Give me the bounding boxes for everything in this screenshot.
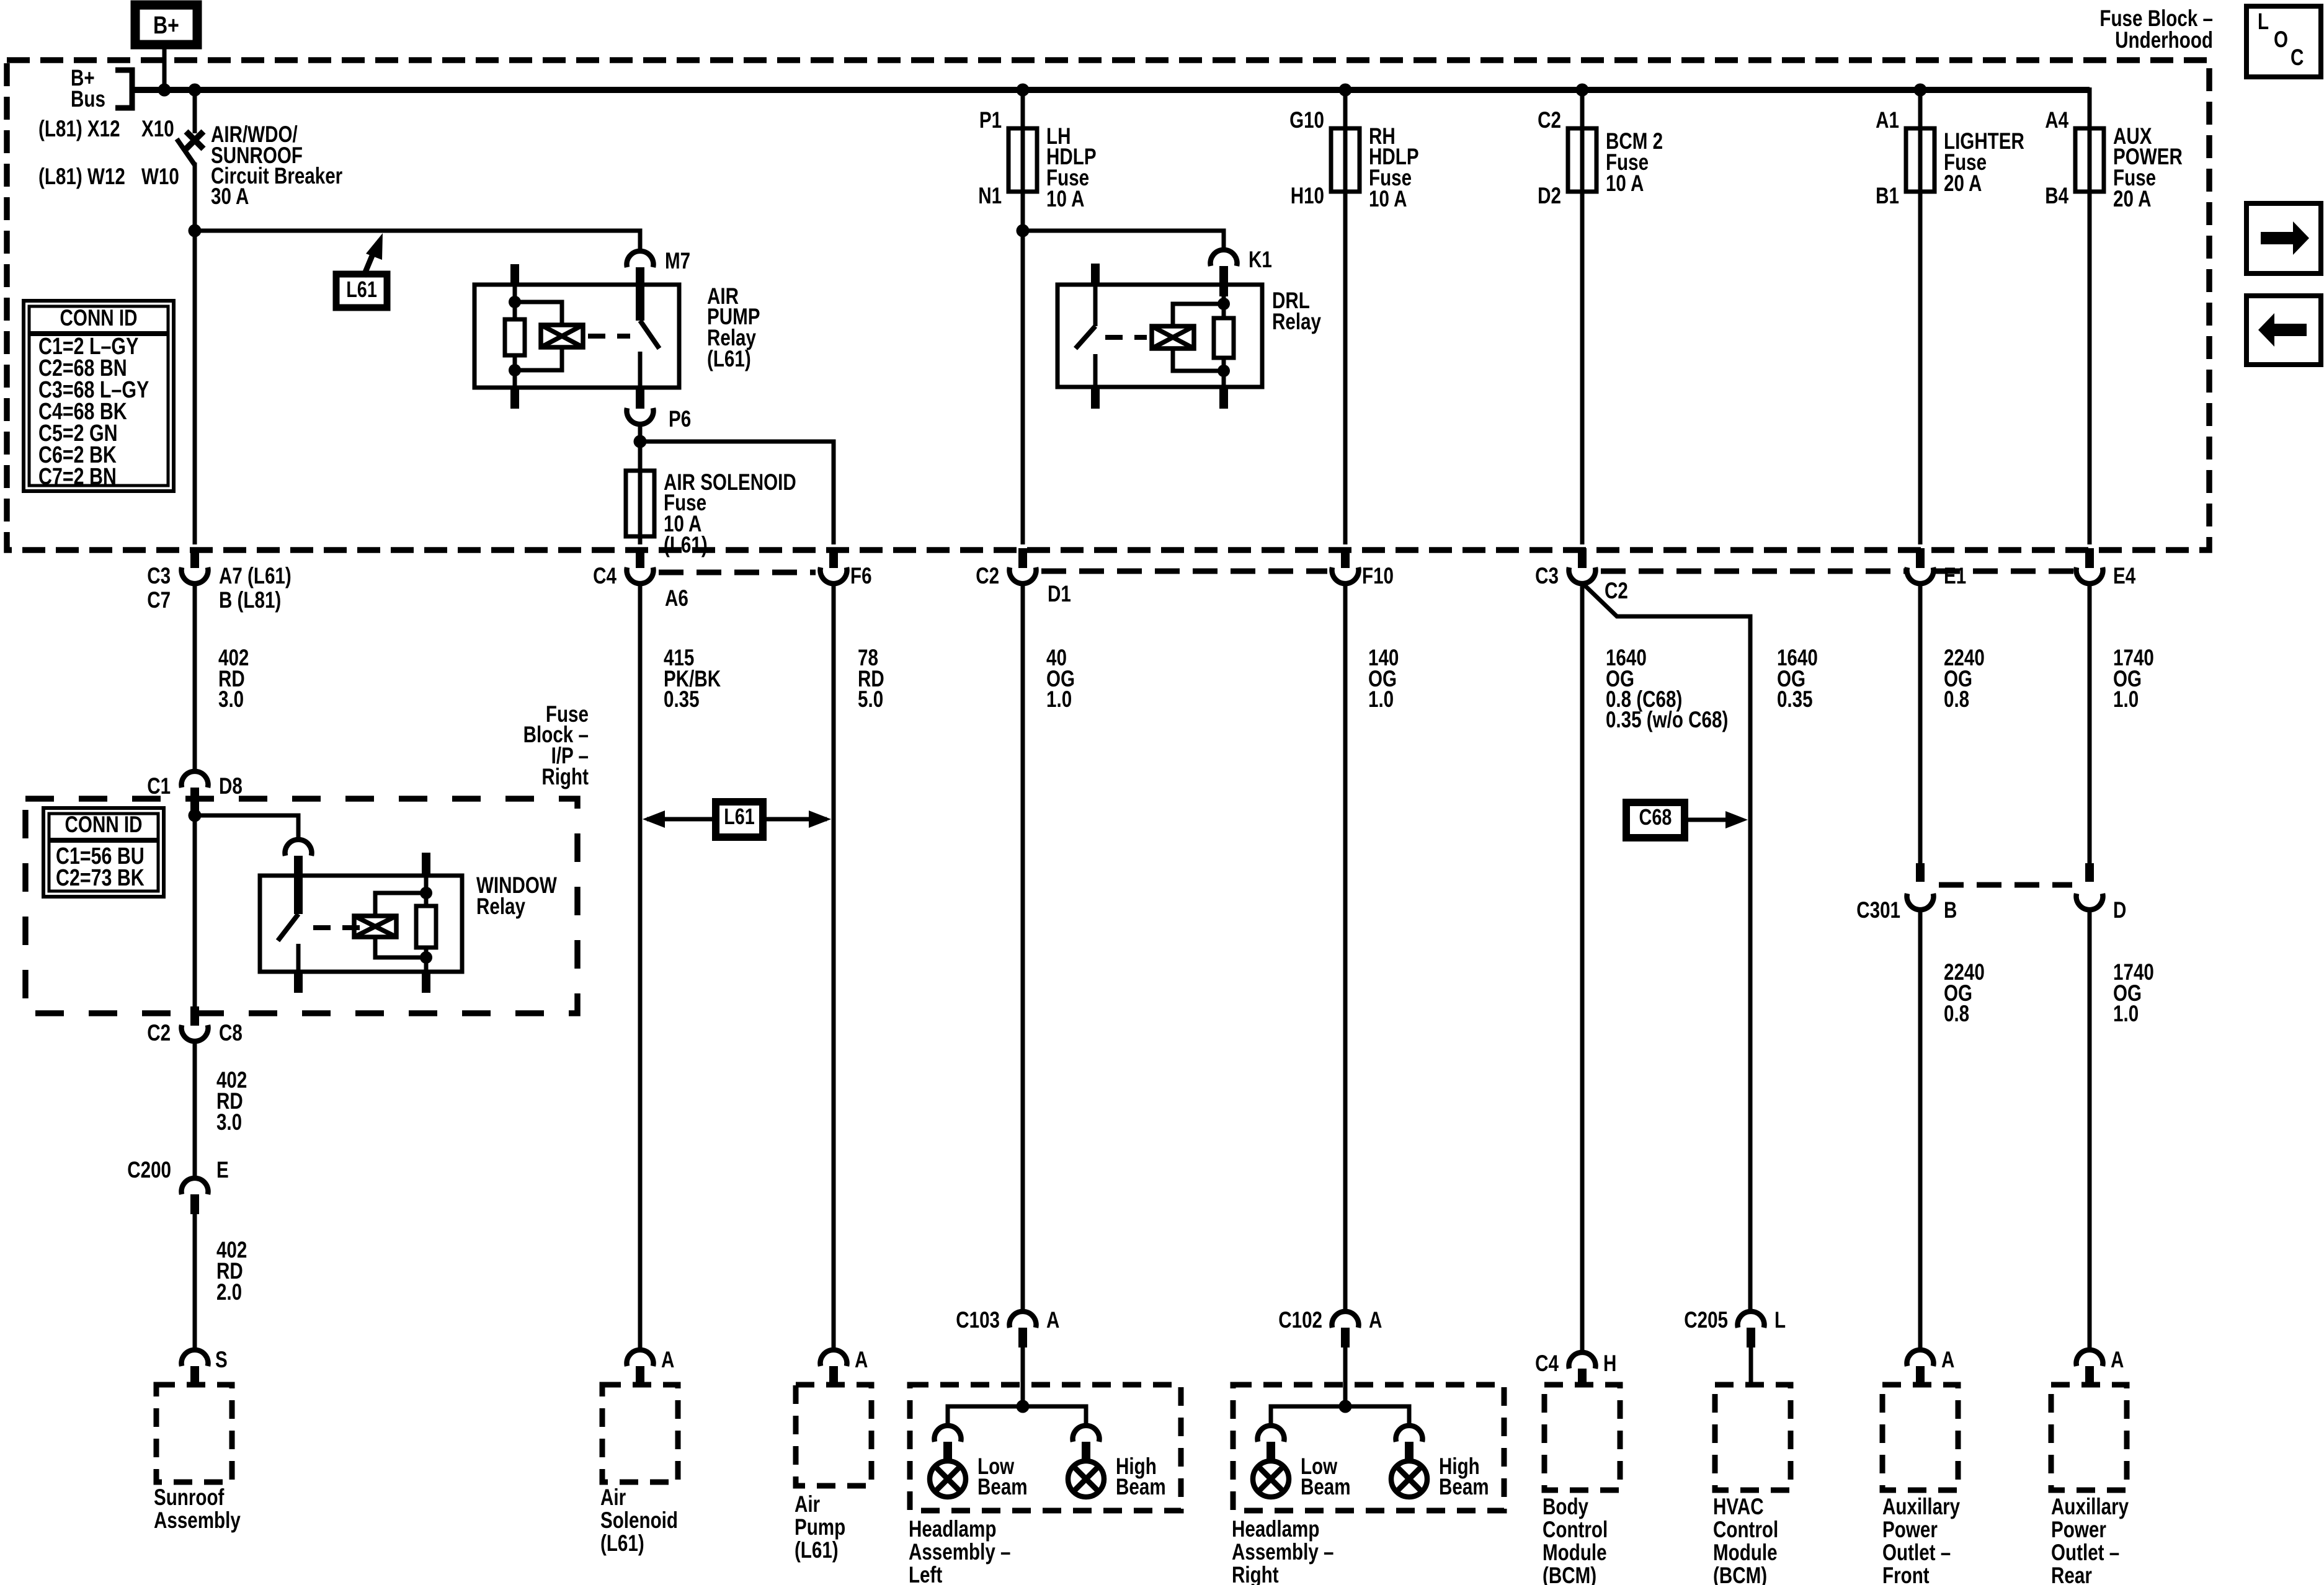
wire C3 down to C4 BCM bbox=[1580, 584, 1585, 1352]
CONN ID table (I/P) bbox=[43, 808, 164, 897]
svg-text:Power: Power bbox=[1882, 1517, 1938, 1543]
svg-text:(L81) W12: (L81) W12 bbox=[38, 164, 125, 190]
svg-text:Auxillary: Auxillary bbox=[1882, 1494, 1960, 1520]
svg-text:C4: C4 bbox=[1535, 1351, 1559, 1377]
headlamp assembly left box bbox=[910, 1385, 1181, 1511]
svg-text:O: O bbox=[2274, 27, 2288, 53]
svg-text:Underhood: Underhood bbox=[2115, 28, 2213, 53]
wire E1 down to C301 B bbox=[1918, 584, 1923, 863]
fuse AIR SOLENOID 10 A bbox=[626, 471, 654, 536]
svg-text:Outlet –: Outlet – bbox=[2051, 1540, 2119, 1566]
window relay coil bbox=[375, 893, 426, 916]
svg-text:A1: A1 bbox=[1876, 108, 1899, 133]
svg-text:C102: C102 bbox=[1278, 1308, 1322, 1333]
svg-text:B (L81): B (L81) bbox=[219, 588, 281, 613]
fuse RH HDLP 10 A bbox=[1331, 128, 1360, 192]
wire C102 into headlamp right bbox=[1343, 1385, 1348, 1406]
svg-text:C2: C2 bbox=[1605, 579, 1628, 604]
svg-text:A: A bbox=[1369, 1308, 1382, 1333]
wire AUX fuse to E4 connector bbox=[2088, 192, 2092, 544]
svg-text:C2: C2 bbox=[976, 564, 999, 589]
junction B+ box to bus bbox=[158, 84, 171, 97]
CONN ID table (underhood) bbox=[24, 301, 174, 491]
connector C200 (E) bbox=[182, 1178, 208, 1194]
svg-text:Pump: Pump bbox=[795, 1515, 845, 1540]
svg-text:A4: A4 bbox=[2045, 108, 2068, 133]
wire branch N1 to DRL relay K1 bbox=[1023, 231, 1224, 249]
svg-text:Solenoid: Solenoid bbox=[600, 1508, 678, 1534]
high beam bulb left bbox=[1073, 1426, 1100, 1442]
connector C3 (C2) bbox=[1578, 548, 1587, 568]
svg-text:1.0: 1.0 bbox=[2113, 687, 2139, 713]
svg-text:C2: C2 bbox=[147, 1021, 171, 1046]
wire B to aux front bbox=[1918, 910, 1923, 1349]
connector strip C2-F10 bbox=[1041, 569, 1327, 574]
svg-text:C200: C200 bbox=[127, 1158, 171, 1183]
svg-text:C1: C1 bbox=[147, 774, 171, 799]
svg-text:Assembly: Assembly bbox=[154, 1508, 241, 1534]
svg-text:0.8: 0.8 bbox=[1944, 687, 1969, 713]
auxillary power outlet rear box bbox=[2051, 1385, 2127, 1490]
svg-text:C301: C301 bbox=[1856, 898, 1900, 923]
headlamp assembly right box bbox=[1233, 1385, 1504, 1511]
window relay box bbox=[260, 876, 462, 972]
wire bus to RH fuse bbox=[1343, 90, 1348, 128]
svg-text:Assembly –: Assembly – bbox=[909, 1540, 1011, 1565]
connector A (aux rear) bbox=[2077, 1350, 2103, 1366]
DRL relay box bbox=[1057, 285, 1262, 387]
svg-text:Body: Body bbox=[1543, 1494, 1588, 1520]
svg-text:C2=73 BK: C2=73 BK bbox=[56, 865, 145, 891]
svg-text:Beam: Beam bbox=[1439, 1475, 1489, 1500]
body control module box bbox=[1544, 1385, 1620, 1490]
air pump relay coil bbox=[515, 302, 562, 325]
wire RH fuse to F10 connector bbox=[1343, 192, 1348, 544]
headlamp right distribution wire bbox=[1271, 1406, 1409, 1425]
svg-text:C7: C7 bbox=[147, 588, 171, 613]
DRL relay linkage bbox=[1105, 335, 1147, 340]
fuse LH HDLP 10 A bbox=[1008, 128, 1037, 192]
air pump relay coil pin stubs bbox=[510, 264, 519, 285]
wire breaker junction to C3 connector bbox=[193, 231, 197, 544]
wire C103 into headlamp left bbox=[1021, 1385, 1025, 1406]
svg-text:D: D bbox=[2113, 898, 2126, 923]
svg-text:C68: C68 bbox=[1639, 804, 1672, 830]
low beam bulb left bbox=[935, 1426, 961, 1442]
svg-text:0.8: 0.8 bbox=[1944, 1001, 1969, 1027]
svg-text:Air: Air bbox=[795, 1492, 820, 1517]
backward arrow reference box bbox=[2246, 296, 2321, 365]
DRL relay resistor bbox=[1222, 296, 1226, 318]
svg-text:Bus: Bus bbox=[71, 87, 105, 112]
fuse block - underhood dashed boundary box bbox=[7, 60, 2209, 550]
svg-text:N1: N1 bbox=[978, 184, 1002, 209]
wire bus to LH fuse bbox=[1021, 90, 1025, 128]
svg-text:Relay: Relay bbox=[1272, 309, 1321, 335]
wire branch to window relay bbox=[195, 815, 298, 839]
connector C1 (D8) bbox=[182, 771, 208, 788]
junction P6 branch bbox=[634, 435, 647, 448]
window relay linkage bbox=[313, 925, 363, 930]
wire bus corner to AUX fuse bbox=[2088, 87, 2092, 128]
wire F6 down to air pump bbox=[832, 584, 836, 1349]
low beam bulb right bbox=[1258, 1426, 1284, 1442]
svg-text:P6: P6 bbox=[669, 407, 691, 432]
svg-text:10 A: 10 A bbox=[1369, 187, 1407, 212]
wire D to aux rear bbox=[2088, 910, 2092, 1349]
svg-text:P1: P1 bbox=[979, 108, 1002, 133]
wire bus to BCM2 fuse bbox=[1580, 90, 1585, 128]
connector F10 bbox=[1341, 548, 1350, 568]
svg-text:Headlamp: Headlamp bbox=[909, 1517, 996, 1542]
svg-text:C103: C103 bbox=[956, 1308, 1000, 1333]
svg-text:(L61): (L61) bbox=[664, 533, 708, 558]
svg-text:H10: H10 bbox=[1291, 184, 1324, 209]
svg-text:E1: E1 bbox=[1944, 564, 1966, 589]
svg-text:E4: E4 bbox=[2113, 564, 2136, 589]
wire LH fuse to C2 connector bbox=[1021, 192, 1025, 544]
connector C4 (H) BCM bbox=[1569, 1352, 1596, 1369]
DRL relay switch bbox=[1091, 264, 1100, 285]
svg-text:(L81) X12: (L81) X12 bbox=[38, 117, 120, 142]
window relay connector arc bbox=[285, 840, 312, 856]
svg-text:Right: Right bbox=[541, 765, 589, 790]
svg-text:Beam: Beam bbox=[1301, 1475, 1351, 1500]
wire LIGHTER fuse to E1 connector bbox=[1918, 192, 1923, 544]
connector M7 bbox=[627, 251, 654, 267]
svg-text:A7 (L61): A7 (L61) bbox=[219, 564, 292, 589]
wire P6 to air solenoid fuse bbox=[638, 442, 643, 544]
svg-text:C3: C3 bbox=[147, 564, 171, 589]
svg-text:C8: C8 bbox=[219, 1021, 243, 1046]
svg-text:S: S bbox=[215, 1347, 228, 1373]
svg-text:Outlet –: Outlet – bbox=[1882, 1540, 1951, 1566]
connector C103 (A) bbox=[1010, 1312, 1036, 1328]
svg-text:Beam: Beam bbox=[977, 1475, 1028, 1500]
wire C8 to C200 bbox=[193, 1041, 197, 1178]
connector C2/C8 bbox=[190, 1006, 199, 1026]
svg-text:F10: F10 bbox=[1362, 564, 1394, 589]
svg-text:Air: Air bbox=[600, 1485, 626, 1511]
svg-text:(L61): (L61) bbox=[795, 1538, 839, 1563]
svg-text:X10: X10 bbox=[141, 117, 174, 142]
svg-text:3.0: 3.0 bbox=[216, 1110, 242, 1135]
svg-text:W10: W10 bbox=[141, 164, 179, 190]
wire D1 down to C103 bbox=[1021, 584, 1025, 1311]
svg-text:B+: B+ bbox=[153, 11, 179, 39]
B+ bus wire bbox=[132, 87, 2090, 93]
svg-text:Headlamp: Headlamp bbox=[1232, 1517, 1319, 1542]
svg-text:Relay: Relay bbox=[476, 894, 525, 920]
junction window relay branch bbox=[189, 809, 202, 822]
svg-text:HVAC: HVAC bbox=[1713, 1494, 1764, 1520]
HVAC control module box bbox=[1715, 1385, 1791, 1490]
svg-text:3.0: 3.0 bbox=[218, 687, 244, 713]
svg-text:A: A bbox=[855, 1347, 868, 1373]
svg-text:D1: D1 bbox=[1048, 582, 1071, 607]
air pump relay box bbox=[474, 285, 679, 388]
junction breaker branch bbox=[189, 224, 202, 238]
svg-text:B4: B4 bbox=[2045, 184, 2068, 209]
svg-text:A: A bbox=[1046, 1308, 1059, 1333]
connector C301 D bbox=[2085, 863, 2094, 882]
forward arrow reference box bbox=[2246, 203, 2321, 273]
connector strip C3-E1-E4 bbox=[1601, 569, 1905, 574]
junction bus BCM2 bbox=[1576, 84, 1589, 97]
svg-text:Right: Right bbox=[1232, 1563, 1279, 1585]
svg-text:(L61): (L61) bbox=[600, 1531, 644, 1556]
DRL relay coil bbox=[1173, 304, 1224, 326]
junction N1 branch to DRL bbox=[1017, 224, 1030, 238]
connector strip C4-F6 bbox=[659, 570, 816, 575]
connector C205 (L) bbox=[1737, 1312, 1764, 1328]
svg-text:B: B bbox=[1944, 898, 1957, 923]
sunroof assembly box bbox=[156, 1385, 232, 1482]
wire C200 to S bbox=[193, 1214, 197, 1349]
svg-text:C7=2 BN: C7=2 BN bbox=[38, 464, 117, 490]
svg-text:1.0: 1.0 bbox=[2113, 1001, 2139, 1027]
fuse BCM 2 10 A bbox=[1568, 128, 1596, 192]
svg-text:Module: Module bbox=[1543, 1540, 1607, 1566]
svg-text:B1: B1 bbox=[1876, 184, 1899, 209]
junction bus to circuit breaker bbox=[189, 84, 202, 97]
svg-text:Sunroof: Sunroof bbox=[154, 1485, 225, 1511]
wire C3/C7 to C1 connector bbox=[193, 584, 197, 771]
fuse block I/P right dashed boundary box bbox=[25, 799, 577, 1013]
circuit breaker contact cross X10 bbox=[186, 131, 203, 149]
svg-text:L61: L61 bbox=[346, 277, 377, 302]
svg-text:M7: M7 bbox=[665, 249, 690, 274]
svg-text:C4: C4 bbox=[593, 564, 617, 589]
svg-text:Front: Front bbox=[1882, 1563, 1930, 1585]
svg-text:D8: D8 bbox=[219, 774, 243, 799]
wire branch P6 to F6 bbox=[640, 442, 834, 544]
C68 option label with arrow bbox=[1626, 802, 1685, 838]
junction headlamp left bbox=[1017, 1400, 1030, 1413]
connector P6 bbox=[627, 408, 654, 424]
svg-text:2.0: 2.0 bbox=[216, 1280, 242, 1305]
junction bus RH HDLP bbox=[1339, 84, 1352, 97]
svg-text:Beam: Beam bbox=[1116, 1475, 1166, 1500]
svg-text:A: A bbox=[2111, 1347, 2124, 1373]
high beam bulb right bbox=[1396, 1426, 1423, 1442]
svg-text:1.0: 1.0 bbox=[1046, 687, 1072, 713]
junction bus LH HDLP bbox=[1017, 84, 1030, 97]
svg-text:(L61): (L61) bbox=[707, 347, 751, 372]
air pump relay resistor bbox=[513, 285, 517, 319]
connector strip C301 bbox=[1939, 882, 2072, 888]
svg-text:A6: A6 bbox=[665, 586, 688, 611]
air pump relay linkage bbox=[588, 334, 630, 339]
svg-text:10 A: 10 A bbox=[1606, 171, 1644, 197]
junction headlamp right bbox=[1339, 1400, 1352, 1413]
LOC reference box bbox=[2246, 6, 2321, 77]
connector C3/C7 (A7/B) bbox=[190, 548, 199, 568]
svg-text:C: C bbox=[2291, 45, 2304, 71]
svg-text:20 A: 20 A bbox=[1944, 171, 1982, 197]
svg-text:F6: F6 bbox=[850, 564, 872, 589]
svg-text:(BCM): (BCM) bbox=[1543, 1563, 1596, 1585]
connector K1 bbox=[1211, 250, 1237, 266]
svg-text:Module: Module bbox=[1713, 1540, 1778, 1566]
svg-text:10 A: 10 A bbox=[1046, 187, 1084, 212]
circuit breaker blade bbox=[177, 139, 195, 165]
connector C4 (A6) bbox=[636, 548, 644, 568]
svg-text:0.35: 0.35 bbox=[664, 687, 700, 713]
window relay resistor bbox=[422, 853, 430, 876]
wire C2 diagonal branch to HVAC bbox=[1584, 585, 1750, 1311]
svg-text:H: H bbox=[1603, 1351, 1616, 1377]
svg-text:0.35: 0.35 bbox=[1777, 687, 1813, 713]
air solenoid box bbox=[602, 1385, 678, 1482]
svg-text:0.35 (w/o C68): 0.35 (w/o C68) bbox=[1606, 708, 1728, 733]
wire bus to LIGHTER fuse bbox=[1918, 90, 1923, 128]
air pump relay switch bbox=[640, 321, 659, 349]
svg-text:E: E bbox=[216, 1158, 229, 1183]
svg-text:Control: Control bbox=[1713, 1517, 1778, 1543]
svg-text:Auxillary: Auxillary bbox=[2051, 1494, 2129, 1520]
connector E4 bbox=[2085, 548, 2094, 568]
svg-text:CONN ID: CONN ID bbox=[65, 812, 143, 838]
svg-text:5.0: 5.0 bbox=[858, 687, 883, 713]
svg-text:Rear: Rear bbox=[2051, 1563, 2092, 1585]
connector A (aux front) bbox=[1907, 1350, 1934, 1366]
fuse AUX POWER 20 A bbox=[2075, 128, 2104, 192]
wire bus to breaker contact bbox=[193, 90, 197, 133]
svg-text:(BCM): (BCM) bbox=[1713, 1563, 1767, 1585]
junction bus LIGHTER bbox=[1914, 84, 1927, 97]
svg-text:C2: C2 bbox=[1538, 108, 1561, 133]
connector C301 B bbox=[1916, 863, 1925, 882]
wire F10 down to C102 bbox=[1343, 584, 1348, 1311]
wire breaker to junction bbox=[193, 162, 197, 231]
connector C2 (D1) bbox=[1018, 548, 1027, 568]
headlamp left distribution wire bbox=[948, 1406, 1086, 1425]
battery feed B+ box bbox=[135, 5, 197, 45]
connector E1 bbox=[1916, 548, 1925, 568]
window relay switch bbox=[278, 914, 298, 941]
connector C102 (A) bbox=[1332, 1312, 1359, 1328]
connector S (sunroof) bbox=[182, 1350, 208, 1366]
wire C1 to C2/C8 bbox=[193, 814, 197, 1008]
svg-text:1.0: 1.0 bbox=[1368, 687, 1394, 713]
svg-text:20 A: 20 A bbox=[2113, 187, 2151, 212]
connector A (air pump) bbox=[821, 1350, 847, 1366]
svg-text:G10: G10 bbox=[1289, 108, 1324, 133]
svg-text:L: L bbox=[2258, 9, 2269, 35]
connector F6 bbox=[829, 548, 838, 568]
auxillary power outlet front box bbox=[1882, 1385, 1958, 1490]
wire B+ box to bus bbox=[163, 49, 167, 90]
svg-text:CONN ID: CONN ID bbox=[60, 306, 138, 331]
svg-text:L: L bbox=[1774, 1308, 1786, 1333]
L61 option label with arrow bbox=[336, 274, 387, 308]
svg-text:A: A bbox=[1941, 1347, 1954, 1373]
svg-text:Control: Control bbox=[1543, 1517, 1608, 1543]
svg-text:L61: L61 bbox=[724, 804, 755, 829]
svg-text:Assembly –: Assembly – bbox=[1232, 1540, 1334, 1565]
svg-text:D2: D2 bbox=[1538, 184, 1561, 209]
svg-text:C3: C3 bbox=[1535, 564, 1559, 589]
wire BCM2 fuse to C3 connector bbox=[1580, 192, 1585, 544]
svg-text:30 A: 30 A bbox=[211, 184, 249, 210]
connector A (air solenoid) bbox=[627, 1350, 654, 1366]
wire branch to air pump relay M7 bbox=[195, 231, 640, 251]
svg-text:Power: Power bbox=[2051, 1517, 2106, 1543]
wire C4 to L61 arrow span bbox=[638, 584, 643, 1349]
svg-text:Left: Left bbox=[909, 1563, 942, 1585]
svg-text:C205: C205 bbox=[1684, 1308, 1728, 1333]
svg-text:K1: K1 bbox=[1249, 247, 1272, 273]
L61 span label with double arrow bbox=[647, 817, 717, 822]
svg-text:A: A bbox=[661, 1347, 674, 1373]
wire E4 down to C301 D bbox=[2088, 584, 2092, 863]
air pump box bbox=[796, 1385, 871, 1486]
fuse LIGHTER 20 A bbox=[1906, 128, 1934, 192]
